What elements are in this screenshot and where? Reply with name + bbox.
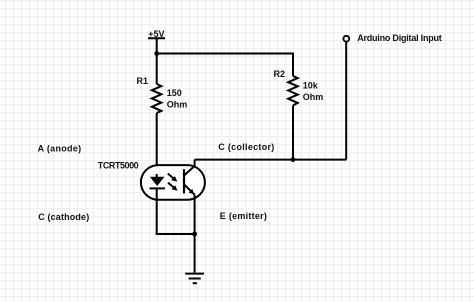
wire emitter down to ground	[194, 195, 196, 273]
resistor R1	[152, 84, 162, 113]
resistor R2	[288, 76, 298, 106]
junction top rail	[154, 51, 159, 56]
phototransistor emitter lead	[184, 184, 195, 194]
wire Arduino input drop	[345, 42, 347, 160]
svg-text:TCRT5000: TCRT5000	[98, 161, 139, 171]
wire collector rail	[195, 159, 347, 161]
wire R1 to optocoupler LED	[156, 113, 158, 178]
IR arrow 1	[168, 174, 178, 182]
emitter arrowhead	[189, 189, 195, 194]
wire cathode to emitter link	[156, 233, 195, 235]
svg-text:Arduino Digital Input: Arduino Digital Input	[357, 33, 442, 43]
phototransistor Q1 base bar	[183, 169, 185, 193]
svg-text:10k: 10k	[303, 80, 319, 90]
wire cathode down	[156, 188, 158, 235]
optocoupler U1 TCRT5000 body	[141, 165, 205, 200]
svg-text:A (anode): A (anode)	[38, 143, 82, 153]
svg-text:R2: R2	[273, 69, 285, 79]
wire +5V to junction	[156, 38, 158, 54]
power +5V bar	[148, 37, 165, 39]
ground bar 3	[193, 282, 197, 284]
junction collector rail / R2	[291, 157, 296, 162]
svg-text:R1: R1	[136, 76, 148, 86]
wire R2 drop from top rail	[292, 53, 294, 77]
IR arrow 2	[168, 183, 178, 191]
wire top rail to R2	[157, 53, 293, 55]
wire LED inside stub	[156, 174, 158, 178]
junction emitter/cathode	[192, 232, 197, 237]
wire R1 top stub	[156, 54, 158, 85]
svg-text:E (emitter): E (emitter)	[220, 211, 267, 221]
phototransistor collector lead	[184, 160, 195, 176]
wire R2 to collector rail	[292, 106, 294, 160]
svg-text:150: 150	[167, 88, 182, 98]
svg-text:C (cathode): C (cathode)	[38, 212, 89, 222]
LED D1 cathode bar	[150, 187, 166, 189]
svg-text:Ohm: Ohm	[303, 92, 324, 102]
svg-text:C (collector): C (collector)	[218, 142, 274, 152]
LED D1 anode triangle	[150, 177, 165, 186]
ground bar 1	[185, 273, 204, 275]
terminal Arduino Digital Input	[343, 36, 349, 42]
svg-text:Ohm: Ohm	[167, 100, 188, 110]
ground bar 2	[189, 278, 201, 280]
